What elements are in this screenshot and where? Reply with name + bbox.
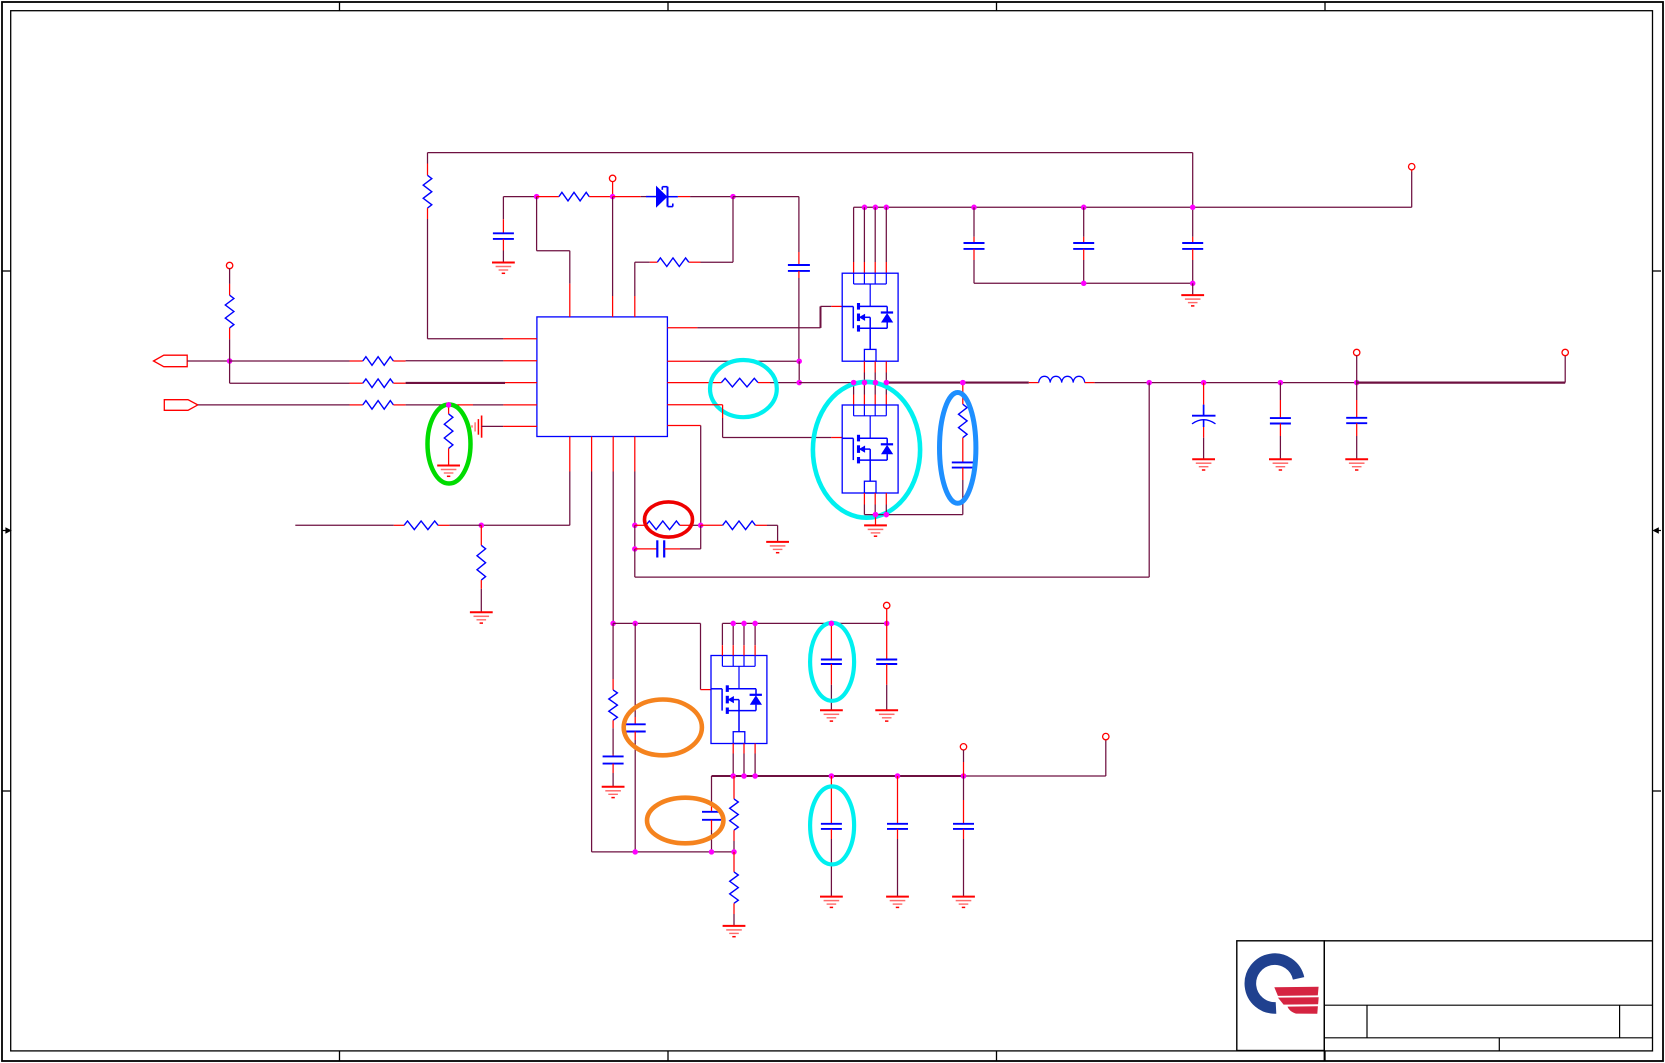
capacitor C6 snubber (952, 462, 974, 514)
capacitor C10 horizontal (635, 525, 701, 557)
junction G3 (632, 546, 638, 552)
wire row to R11 (438, 524, 481, 526)
terminal input arrow right (164, 400, 198, 411)
ground C9 (1345, 459, 1368, 470)
capacitor C7 polarized (1192, 383, 1216, 460)
annotation blue ellipse snubber (940, 393, 976, 504)
wire D down corner (230, 361, 350, 383)
terminal 3V3 circle right (1103, 733, 1109, 776)
junction SW b (862, 380, 868, 386)
wire Q1 drain pin a (853, 207, 855, 273)
node A junction (534, 194, 540, 200)
wire G1 down (634, 525, 636, 549)
wire C down to R3 (701, 197, 734, 263)
wire U1 bottom pin4 drop (634, 437, 636, 526)
annotation cyan ellipse R4 (710, 360, 777, 417)
annotation cyan ellipse C16 (810, 786, 854, 864)
junction SW a (851, 380, 857, 386)
resistor R5 snubber (959, 383, 968, 463)
resistor R8 horizontal (350, 357, 406, 366)
wire node A horizontal (503, 196, 536, 198)
wire Q3 source pin c (754, 744, 756, 777)
junction Q2 src b (873, 512, 879, 518)
wire VIN right drop to bus (1192, 153, 1194, 237)
junction VOUT C9 (1354, 380, 1360, 386)
wire R14 to gnd (777, 525, 779, 542)
junction H5 (731, 849, 737, 855)
wire R5 down to RC (700, 426, 702, 526)
wire VOUT thick to terminal (1357, 382, 1566, 384)
wire VIN bus horizontal (854, 206, 1412, 208)
wire Q3 drain pin b (732, 623, 734, 655)
ground C16 (820, 897, 843, 908)
junction bus C5 (1190, 205, 1196, 211)
resistor R16 vertical (730, 776, 739, 852)
wire R1 bottom to U1 pin row (428, 219, 537, 339)
wire cap return bus (974, 282, 1193, 284)
junction G1 (632, 523, 638, 529)
junction 5V C13 (829, 621, 835, 627)
wire boot drop (1148, 383, 1150, 577)
wire Q3 drain pin c (743, 623, 745, 655)
capacitor C11 (625, 623, 646, 852)
capacitor C8 (1270, 383, 1291, 460)
wire A to U1 top pin1 (537, 197, 570, 317)
ground R10 (437, 466, 460, 477)
wire Q2 drain pin b (863, 383, 865, 405)
junction bus C4 (1081, 205, 1087, 211)
resistor R7 horizontal (350, 379, 406, 388)
terminal VIN circle right (1409, 164, 1415, 208)
wire Q2 source pin c (885, 493, 887, 515)
ground R12 (470, 612, 493, 623)
junction Q3 s b (741, 773, 747, 779)
junction bus Q1 pin3 (884, 205, 890, 211)
junction G2 (698, 523, 704, 529)
wire Q3 drain pin d (754, 623, 756, 655)
capacitor C13 (821, 623, 842, 710)
wire U1 bottom pin3 drop (612, 437, 614, 624)
wire SW thick segment (886, 382, 1028, 384)
resistor R4 horizontal (721, 378, 799, 387)
wire Q2 source row (864, 514, 962, 516)
ground R17 (723, 926, 746, 937)
wire Q3 drain row (722, 622, 886, 624)
junction H4 (709, 849, 715, 855)
wire R2-R3 link (798, 361, 800, 382)
resistor R9 horizontal (350, 401, 406, 410)
ground Q2 source (864, 515, 887, 537)
capacitor C3 (964, 207, 985, 283)
terminal input arrow left (154, 355, 188, 367)
annotation cyan ellipse Q2 (813, 382, 920, 518)
wire feedback row (481, 524, 570, 526)
resistor R3 horizontal (635, 258, 701, 267)
annotation green ellipse R10 (428, 405, 471, 484)
junction bus Q1 pin1 (862, 205, 868, 211)
junction Q3 d c (741, 621, 747, 627)
junction SW R2link (796, 380, 802, 386)
wire Q1 drain pin c (874, 207, 876, 273)
capacitor C2 (788, 265, 810, 271)
wire E to U1 (449, 404, 537, 406)
wire R7 to U1 thick (406, 382, 537, 384)
junction SW c (873, 380, 879, 386)
ground C13 (820, 710, 843, 721)
ground caps bus (1181, 283, 1204, 306)
annotation orange ellipse C15 (647, 798, 723, 844)
wire U1 pin R3 to R4 resistor (667, 382, 721, 384)
wire Q3 source pin b (743, 744, 745, 777)
capacitor C14 (876, 623, 897, 710)
resistor R6 vertical (225, 269, 234, 362)
junction 3V3 C17 (895, 773, 901, 779)
annotation red ellipse R13 (645, 502, 693, 537)
wire Q3 source pin a (732, 744, 734, 777)
wire 5V row left (613, 622, 700, 624)
capacitor C16 (821, 776, 842, 897)
capacitor C17 (887, 776, 908, 897)
wire 3V3 row (712, 775, 1106, 777)
wire arrow to node D (187, 360, 229, 362)
resistor R15 vertical (609, 623, 618, 754)
junction R2 node (796, 358, 802, 364)
ground R14 (766, 542, 789, 553)
terminal VCC circle (609, 175, 615, 196)
junction overlay dots (446, 380, 966, 626)
ground C1 (492, 263, 515, 274)
inductor L1 (1029, 376, 1095, 382)
op-amp U1 main controller IC (537, 317, 668, 437)
junction H1 (610, 621, 616, 627)
wire Q1 drain pin d (885, 207, 887, 273)
junction Q3 s a (730, 773, 736, 779)
resistor R17 vertical (730, 852, 739, 926)
terminal 5V circle (884, 602, 890, 623)
junction VOUT boot (1146, 380, 1152, 386)
node C junction (730, 194, 736, 200)
transistor Q1 high-side MOSFET (842, 273, 898, 361)
wire D to R8 (230, 360, 350, 362)
ground C8 (1269, 459, 1292, 470)
resistor R13 horizontal (635, 521, 701, 530)
junction return C4 (1081, 281, 1087, 287)
wire C to C2 drop (733, 197, 799, 265)
capacitor C18 (953, 776, 974, 897)
ground C18 (952, 897, 975, 908)
ground C7 (1192, 459, 1215, 470)
wire U1 pin R1 gate drive Q1 (667, 306, 842, 328)
node E junction (446, 402, 452, 408)
wire chassis gnd to U1 (482, 425, 537, 427)
wire Q1 source pin a (863, 361, 865, 382)
wire Q2 source pin a (863, 493, 865, 515)
junction F (479, 523, 485, 529)
ground C12 (602, 787, 625, 798)
junction Q3 d b (730, 621, 736, 627)
capacitor C1 (493, 197, 514, 263)
node D junction (227, 358, 233, 364)
wire Q3 drain pin a (721, 623, 723, 655)
junction 3V3 C16 (829, 773, 835, 779)
junction VOUT C8 (1278, 380, 1284, 386)
wire Q1 drain pin b (863, 207, 865, 273)
junction return C5 (1190, 281, 1196, 287)
annotation cyan ellipse C13 (810, 623, 854, 701)
wire G3 down to boot row (634, 549, 636, 577)
ground C17 (886, 897, 909, 908)
junction SW d (884, 380, 890, 386)
junction H3 (632, 849, 638, 855)
ground C14 (875, 710, 898, 721)
wire boot bottom row (635, 576, 1149, 578)
wire U1 bottom pin2 drop (591, 437, 593, 852)
resistor R1 top-left vertical (423, 153, 432, 219)
wire B to U1 top pin2 (612, 197, 614, 317)
junction Q3 d d (752, 621, 758, 627)
junction 3V3 C18 (961, 773, 967, 779)
junction 5V C14 (884, 621, 890, 627)
logo company mark (1250, 959, 1318, 1014)
wire U1 pin R4 gate drive Q2 (667, 405, 842, 438)
capacitor C9 (1346, 383, 1367, 460)
junction VOUT C7 (1201, 380, 1207, 386)
annotation orange ellipse C11 (624, 700, 702, 756)
wire gate drop Q3 (701, 623, 712, 689)
wire C2 bottom down (798, 271, 800, 361)
wire U1 pin R5 (667, 425, 700, 427)
node B junction (610, 194, 616, 200)
wire R8 to U1 (406, 360, 537, 362)
capacitor C12 (603, 755, 624, 787)
resistor R10 vertical (444, 405, 453, 466)
wire bottom return row (592, 851, 734, 853)
wire Q2 drain pin a (853, 383, 855, 405)
wire Q1 source pin c (885, 361, 887, 382)
chassis ground U1 left (472, 416, 482, 438)
zener diode D1 (613, 186, 733, 208)
capacitor C15 (702, 776, 721, 852)
wire Q2 drain pin d (885, 383, 887, 405)
junction H2 (632, 621, 638, 627)
resistor R12 vertical (477, 525, 486, 612)
wire U1 bottom pin1 drop (569, 437, 571, 526)
junction Q3 s c (752, 773, 758, 779)
resistor R14 horizontal (701, 521, 778, 530)
capacitor C4 (1073, 207, 1094, 283)
terminal VOUT circle (1562, 349, 1568, 382)
junction SW snubber (960, 380, 966, 386)
wire Q1 source pin b (874, 361, 876, 382)
transistor Q3 MOSFET (711, 656, 767, 744)
wire arrow2 to R9 (198, 404, 350, 406)
wire R3 to U1 top pin3 (634, 262, 636, 317)
terminal VOUT sense circle (1354, 349, 1360, 382)
resistor R2 horizontal (537, 192, 613, 201)
wire Q2 source pin b (874, 493, 876, 515)
wire VIN top horizontal (428, 152, 1193, 154)
wire SW row left (799, 382, 853, 384)
terminal 3V3 circle (960, 744, 966, 776)
transistor Q2 low-side MOSFET (842, 405, 898, 493)
wire U1 pin R2 (667, 360, 799, 362)
junction Q2 src c (884, 512, 890, 518)
junction bus C3 (971, 205, 977, 211)
terminal sense circle left (226, 262, 232, 268)
capacitor C5 (1182, 237, 1203, 283)
junction bus Q1 pin2 (873, 205, 879, 211)
wire Q2 drain pin c (874, 383, 876, 405)
resistor R11 horizontal (295, 521, 438, 530)
wire VOUT row (1095, 382, 1357, 384)
wire R9 to node E (406, 404, 449, 406)
